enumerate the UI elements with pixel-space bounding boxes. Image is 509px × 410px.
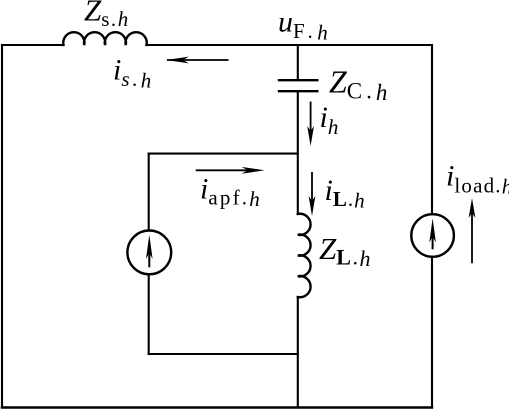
arrow i-h (points down) (310, 102, 312, 141)
svg-text:iapf.h: iapf.h (200, 173, 260, 212)
wire top-right segment (147, 44, 433, 46)
arrow i-apf.h (points right) (196, 169, 258, 171)
svg-text:uF.h: uF.h (278, 6, 328, 45)
wire right edge upper (431, 45, 433, 214)
inductor Zs.h coil (63, 32, 146, 45)
current source APF circle (127, 231, 171, 275)
wire middle branch above capacitor (297, 45, 299, 79)
svg-text:is.h: is.h (113, 54, 151, 93)
inductor ZL.h coil (298, 214, 311, 297)
capacitor ZC.h bottom plate (279, 90, 317, 92)
svg-text:iL.h: iL.h (325, 174, 365, 213)
arrow i-load.h (points up) (471, 206, 473, 263)
svg-text:Zs.h: Zs.h (84, 0, 128, 31)
wire inner loop left lower (148, 274, 150, 354)
wire left edge (1, 45, 3, 408)
arrow i-s.h (points left) (167, 59, 229, 61)
svg-text:ih: ih (320, 101, 339, 139)
wire inner loop left upper (148, 154, 150, 231)
current source I-load circle (411, 214, 454, 257)
arrow i-L.h (points down) (311, 172, 313, 210)
wire bottom edge (2, 406, 432, 409)
svg-text:ZL.h: ZL.h (319, 231, 370, 271)
capacitor ZC.h top plate (279, 79, 317, 81)
wire top-left segment (2, 44, 64, 46)
wire middle branch below coil (297, 297, 299, 408)
arrow inside APF source (points up) (148, 252, 150, 267)
svg-text:ZC.h: ZC.h (329, 64, 387, 106)
wire right edge lower (431, 257, 433, 408)
wire middle branch capacitor to coil (297, 92, 299, 214)
wire inner loop bottom (149, 353, 298, 355)
arrow inside I-load source (points up) (432, 235, 434, 249)
wire inner loop top (149, 153, 298, 155)
svg-text:iload.h: iload.h (446, 160, 509, 199)
